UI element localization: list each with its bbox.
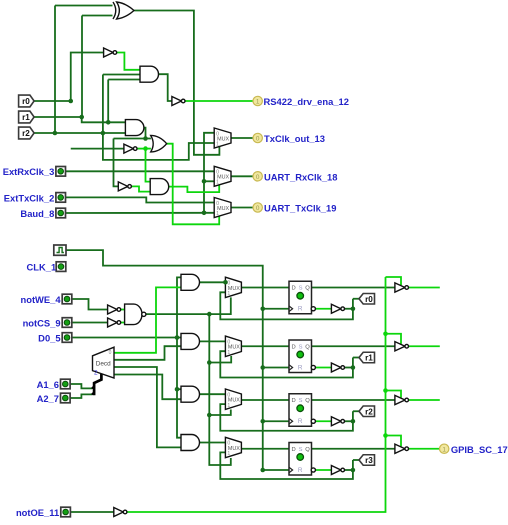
svg-text:GPIB_SC_17: GPIB_SC_17 [451,444,508,455]
svg-text:0: 0 [256,136,260,143]
svg-text:r0: r0 [365,295,373,304]
svg-text:TxClk_out_13: TxClk_out_13 [264,133,325,144]
svg-text:0: 0 [227,441,230,447]
svg-text:1: 1 [227,291,230,297]
svg-text:S: S [299,344,303,350]
svg-text:r0: r0 [22,97,30,106]
svg-text:1: 1 [256,99,260,106]
svg-text:D: D [292,447,296,453]
svg-text:ExtRxClk_3: ExtRxClk_3 [3,166,55,177]
svg-text:r3: r3 [365,456,373,465]
svg-text:D: D [292,344,296,350]
svg-text:0: 0 [256,205,260,212]
svg-text:D: D [292,286,296,292]
svg-text:1: 1 [442,446,446,453]
svg-text:r2: r2 [365,407,373,416]
svg-text:notOE_11: notOE_11 [16,507,59,518]
svg-text:R: R [298,364,303,371]
svg-text:0: 0 [256,174,260,181]
svg-text:Baud_8: Baud_8 [20,208,54,219]
svg-text:r1: r1 [22,113,30,122]
svg-text:Q: Q [305,286,310,292]
svg-text:0: 0 [227,281,230,287]
svg-text:r2: r2 [22,129,30,138]
svg-text:Decd: Decd [96,361,111,368]
svg-text:notWE_4: notWE_4 [20,294,61,305]
svg-text:0: 0 [216,131,219,137]
svg-text:Q: Q [305,398,310,404]
svg-text:R: R [298,418,303,425]
svg-text:UART_TxClk_19: UART_TxClk_19 [264,203,336,214]
svg-text:0: 0 [109,350,112,356]
svg-text:1: 1 [227,350,230,356]
svg-text:A2_7: A2_7 [37,393,59,404]
svg-text:r1: r1 [365,354,373,363]
svg-text:D: D [292,398,296,404]
svg-text:S: S [299,286,303,292]
svg-text:A1_6: A1_6 [37,379,59,390]
svg-text:2: 2 [94,370,98,377]
svg-text:Q: Q [305,344,310,350]
svg-text:1: 1 [227,403,230,409]
svg-text:ExtTxClk_2: ExtTxClk_2 [4,192,55,203]
svg-text:UART_RxClk_18: UART_RxClk_18 [264,172,337,183]
svg-text:Q: Q [305,447,310,453]
svg-text:0: 0 [216,201,219,207]
svg-text:RS422_drv_ena_12: RS422_drv_ena_12 [264,96,349,107]
svg-text:R: R [298,467,303,474]
svg-text:1: 1 [216,141,219,147]
svg-text:S: S [299,447,303,453]
svg-text:1: 1 [216,180,219,186]
svg-text:CLK_1: CLK_1 [26,261,56,272]
svg-text:R: R [298,306,303,313]
svg-text:1: 1 [227,451,230,457]
svg-text:0: 0 [227,339,230,345]
svg-text:S: S [299,398,303,404]
svg-text:D0_5: D0_5 [38,332,60,343]
svg-text:0: 0 [227,392,230,398]
svg-text:notCS_9: notCS_9 [23,317,61,328]
svg-text:1: 1 [216,211,219,217]
svg-text:0: 0 [216,170,219,176]
